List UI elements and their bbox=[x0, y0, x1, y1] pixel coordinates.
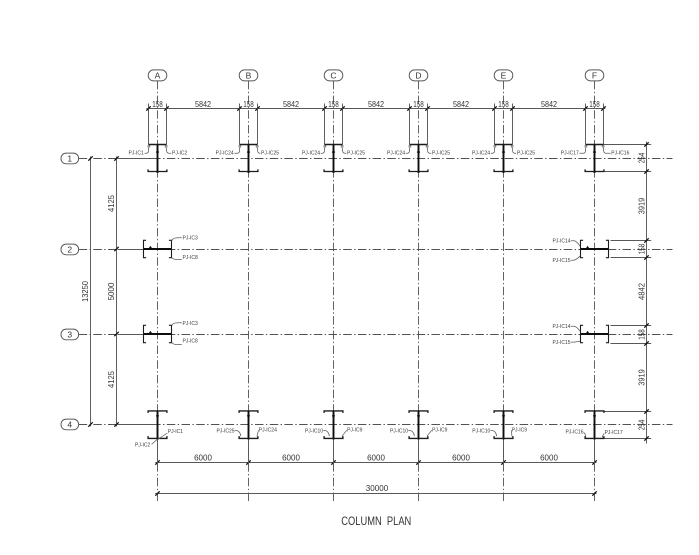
svg-text:5842: 5842 bbox=[453, 100, 470, 109]
svg-text:A: A bbox=[155, 70, 161, 80]
svg-text:6000: 6000 bbox=[194, 453, 212, 462]
dimension label 158 at D bbox=[413, 100, 424, 109]
svg-text:5842: 5842 bbox=[283, 100, 300, 109]
right dimension label 254 bbox=[637, 419, 646, 430]
svg-text:4: 4 bbox=[67, 420, 72, 430]
svg-text:254: 254 bbox=[637, 152, 646, 163]
svg-text:PJ-IC2: PJ-IC2 bbox=[135, 442, 151, 448]
right dimension label 254 bbox=[637, 152, 646, 163]
svg-text:6000: 6000 bbox=[282, 453, 300, 462]
svg-text:3919: 3919 bbox=[637, 197, 646, 214]
svg-text:4125: 4125 bbox=[107, 370, 116, 388]
dimension label 6000 (bay 1) bbox=[194, 453, 212, 462]
right dimension label 158 bbox=[637, 329, 646, 340]
grid bubble 4 bbox=[61, 419, 79, 430]
dimension label 6000 (bay 4) bbox=[452, 453, 470, 462]
svg-text:5842: 5842 bbox=[368, 100, 385, 109]
column PJ-IC14/PJ-IC15 at grid F3 (right wind column) bbox=[552, 324, 609, 346]
svg-text:PJ-IC25: PJ-IC25 bbox=[517, 151, 535, 157]
svg-text:2: 2 bbox=[67, 245, 72, 255]
column PJ-IC16/PJ-IC17 at grid F4 (bottom row steel column) bbox=[565, 411, 622, 440]
svg-text:PJ-IC3: PJ-IC3 bbox=[183, 236, 199, 242]
top dimension extension ticks at D bbox=[407, 104, 429, 114]
svg-text:C: C bbox=[330, 70, 336, 80]
grid centerline D (vertical dash-dot) bbox=[418, 81, 420, 503]
svg-text:30000: 30000 bbox=[366, 484, 389, 493]
dimension label 6000 (bay 3) bbox=[367, 453, 385, 462]
svg-text:158: 158 bbox=[243, 100, 254, 109]
dimension label 6000 (bay 5) bbox=[540, 453, 558, 462]
column PJ-IC24/PJ-IC25 at grid E1 (top row steel column) bbox=[472, 109, 535, 174]
svg-text:PJ-IC8: PJ-IC8 bbox=[183, 338, 199, 344]
bottom dimension extension line at C bbox=[333, 439, 335, 466]
svg-text:PJ-IC24: PJ-IC24 bbox=[259, 428, 277, 434]
dimension label 4125 (rows 3-4) bbox=[107, 370, 116, 388]
column PJ-IC1/PJ-IC2 at grid A1 (top row steel column) bbox=[129, 109, 188, 174]
grid bubble 1 bbox=[61, 153, 79, 164]
title COLUMN PLAN bbox=[341, 514, 411, 528]
grid centerline C (vertical dash-dot) bbox=[333, 81, 335, 503]
top dimension extension ticks at B bbox=[237, 104, 259, 114]
column PJ-IC10/PJ-IC9 at grid E4 (bottom row steel column) bbox=[472, 411, 527, 440]
column PJ-IC24/PJ-IC25 at grid C1 (top row steel column) bbox=[302, 109, 365, 174]
grid centerline 2 (horizontal dash-dot) bbox=[79, 249, 673, 251]
right dimension label 4842 bbox=[637, 282, 646, 300]
svg-text:6000: 6000 bbox=[540, 453, 558, 462]
dimension label 13250 bbox=[81, 280, 90, 302]
bottom dimension extension line at D bbox=[418, 439, 420, 466]
column PJ-IC10/PJ-IC9 at grid C4 (bottom row steel column) bbox=[305, 411, 363, 440]
svg-text:158: 158 bbox=[589, 100, 600, 109]
svg-text:3919: 3919 bbox=[637, 369, 646, 386]
bottom dimension line (6000 bays) bbox=[155, 460, 596, 464]
top dimension extension ticks at E bbox=[492, 104, 514, 114]
grid bubble 2 bbox=[61, 244, 79, 255]
svg-text:F: F bbox=[592, 70, 597, 80]
top dimension extension ticks at A bbox=[146, 104, 168, 114]
svg-text:E: E bbox=[501, 70, 507, 80]
svg-text:PJ-IC17: PJ-IC17 bbox=[561, 151, 579, 157]
svg-text:PJ-IC25: PJ-IC25 bbox=[216, 428, 234, 434]
column PJ-IC17/PJ-IC16 at grid F1 (top row steel column) bbox=[561, 109, 630, 174]
dimension label 4125 (rows 1-2) bbox=[107, 194, 116, 212]
right dimension label 3919 bbox=[637, 369, 646, 386]
svg-text:158: 158 bbox=[637, 243, 646, 254]
column PJ-IC2/PJ-IC1 at grid A4 (bottom row steel column) bbox=[135, 411, 183, 448]
top dimension line bbox=[146, 108, 605, 110]
bottom dimension extension line at E bbox=[503, 439, 505, 466]
svg-text:PJ-IC24: PJ-IC24 bbox=[387, 151, 405, 157]
dimension label 158 at B bbox=[243, 100, 254, 109]
bottom dimension line 30000 bbox=[155, 491, 596, 495]
svg-text:PJ-IC1: PJ-IC1 bbox=[168, 429, 184, 435]
svg-text:PJ-IC14: PJ-IC14 bbox=[552, 239, 570, 245]
svg-text:PJ-IC17: PJ-IC17 bbox=[605, 430, 623, 436]
right dimension line bbox=[646, 142, 648, 444]
svg-text:PJ-IC9: PJ-IC9 bbox=[432, 428, 448, 434]
svg-text:PJ-IC25: PJ-IC25 bbox=[347, 151, 365, 157]
row 3 solid segment bbox=[118, 334, 144, 336]
svg-text:13250: 13250 bbox=[81, 280, 90, 302]
dimension label 30000 bbox=[366, 484, 389, 493]
svg-text:PJ-IC9: PJ-IC9 bbox=[347, 428, 363, 434]
svg-text:D: D bbox=[415, 70, 421, 80]
dimension label 158 at F bbox=[589, 100, 600, 109]
dimension label 5000 (rows 2-3) bbox=[107, 282, 116, 300]
grid bubble D bbox=[409, 70, 428, 81]
grid centerline B (vertical dash-dot) bbox=[248, 81, 250, 503]
grid bubble B bbox=[239, 70, 258, 81]
svg-text:PJ-IC24: PJ-IC24 bbox=[216, 151, 234, 157]
bottom dimension extension line at B bbox=[248, 439, 250, 466]
svg-text:PJ-IC24: PJ-IC24 bbox=[302, 151, 320, 157]
row 4 solid segment bbox=[118, 424, 158, 426]
grid bubble E bbox=[494, 70, 513, 81]
svg-text:PJ-IC24: PJ-IC24 bbox=[472, 151, 490, 157]
svg-text:6000: 6000 bbox=[367, 453, 385, 462]
column PJ-IC24/PJ-IC25 at grid D1 (top row steel column) bbox=[387, 109, 450, 174]
dimension label 5842 (bay 1) bbox=[195, 100, 212, 109]
svg-text:PJ-IC10: PJ-IC10 bbox=[305, 428, 323, 434]
svg-text:PJ-IC10: PJ-IC10 bbox=[472, 428, 490, 434]
svg-text:158: 158 bbox=[328, 100, 339, 109]
right dimension label 3919 bbox=[637, 197, 646, 214]
grid bubble 3 bbox=[61, 329, 79, 340]
dimension label 158 at C bbox=[328, 100, 339, 109]
grid bubble F bbox=[585, 70, 604, 81]
svg-text:PJ-IC2: PJ-IC2 bbox=[172, 151, 188, 157]
top dimension extension ticks at F bbox=[583, 104, 605, 114]
grid centerline F (vertical dash-dot) bbox=[594, 81, 596, 503]
svg-text:158: 158 bbox=[498, 100, 509, 109]
svg-text:COLUMN PLAN: COLUMN PLAN bbox=[341, 514, 411, 528]
svg-text:PJ-IC9: PJ-IC9 bbox=[512, 428, 528, 434]
row 1 solid segment bbox=[118, 158, 158, 160]
grid centerline 3 (horizontal dash-dot) bbox=[79, 334, 673, 336]
grid centerline E (vertical dash-dot) bbox=[503, 81, 505, 503]
right dimension extension lines bbox=[604, 142, 652, 440]
svg-text:6000: 6000 bbox=[452, 453, 470, 462]
svg-text:158: 158 bbox=[152, 100, 163, 109]
svg-text:5842: 5842 bbox=[195, 100, 212, 109]
dimension label 6000 (bay 2) bbox=[282, 453, 300, 462]
grid bubble A bbox=[148, 70, 167, 81]
dimension label 5842 (bay 5) bbox=[541, 100, 558, 109]
row 2 solid segment bbox=[118, 249, 144, 251]
dimension label 158 at E bbox=[498, 100, 509, 109]
svg-text:4125: 4125 bbox=[107, 194, 116, 212]
svg-text:PJ-IC15: PJ-IC15 bbox=[552, 340, 570, 346]
svg-text:PJ-IC16: PJ-IC16 bbox=[611, 151, 629, 157]
svg-text:254: 254 bbox=[637, 419, 646, 430]
left outer dimension line 13250 bbox=[88, 156, 92, 426]
column PJ-IC3/PJ-IC8 at grid A3 (left wind column) bbox=[144, 321, 199, 344]
grid bubble C bbox=[324, 70, 343, 81]
svg-text:PJ-IC10: PJ-IC10 bbox=[390, 428, 408, 434]
right dimension label 158 bbox=[637, 243, 646, 254]
svg-text:PJ-IC15: PJ-IC15 bbox=[552, 258, 570, 264]
svg-text:PJ-IC16: PJ-IC16 bbox=[565, 429, 583, 435]
column PJ-IC25/PJ-IC24 at grid B4 (bottom row steel column) bbox=[216, 411, 277, 440]
svg-text:PJ-IC25: PJ-IC25 bbox=[432, 151, 450, 157]
svg-text:5000: 5000 bbox=[107, 282, 116, 300]
column PJ-IC14/PJ-IC15 at grid F2 (right wind column) bbox=[552, 239, 609, 265]
svg-text:1: 1 bbox=[67, 154, 72, 164]
grid centerline 4 (horizontal dash-dot) bbox=[79, 424, 673, 426]
grid centerline 1 (horizontal dash-dot) bbox=[79, 158, 673, 160]
top dimension extension ticks at C bbox=[322, 104, 344, 114]
svg-text:PJ-IC1: PJ-IC1 bbox=[129, 151, 145, 157]
dimension label 5842 (bay 2) bbox=[283, 100, 300, 109]
bottom dimension extension line at A bbox=[157, 439, 159, 466]
svg-text:PJ-IC14: PJ-IC14 bbox=[552, 324, 570, 330]
left inner dimension line bbox=[114, 156, 118, 426]
grid centerline A (vertical dash-dot) bbox=[157, 81, 159, 503]
svg-text:3: 3 bbox=[67, 330, 72, 340]
dimension label 5842 (bay 4) bbox=[453, 100, 470, 109]
column PJ-IC3/PJ-IC8 at grid A2 (left wind column) bbox=[144, 236, 199, 261]
svg-text:158: 158 bbox=[413, 100, 424, 109]
svg-text:PJ-IC8: PJ-IC8 bbox=[183, 255, 199, 261]
svg-text:B: B bbox=[246, 70, 252, 80]
svg-text:PJ-IC3: PJ-IC3 bbox=[183, 321, 199, 327]
dimension label 158 at A bbox=[152, 100, 163, 109]
svg-text:4842: 4842 bbox=[637, 282, 646, 300]
svg-text:PJ-IC25: PJ-IC25 bbox=[261, 151, 279, 157]
svg-text:5842: 5842 bbox=[541, 100, 558, 109]
bottom dimension extension line at F bbox=[594, 439, 596, 466]
dimension label 5842 (bay 3) bbox=[368, 100, 385, 109]
column PJ-IC10/PJ-IC9 at grid D4 (bottom row steel column) bbox=[390, 411, 448, 440]
column PJ-IC24/PJ-IC25 at grid B1 (top row steel column) bbox=[216, 109, 280, 174]
svg-text:158: 158 bbox=[637, 329, 646, 340]
